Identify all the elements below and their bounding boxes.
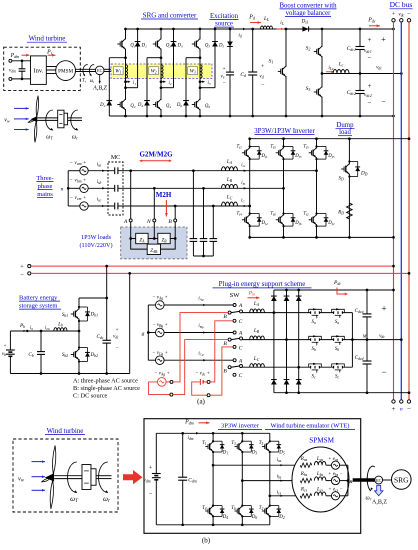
- label iCg: [198, 352, 204, 357]
- inverter box Inv.: [31, 56, 47, 85]
- label Pdc top: [367, 18, 376, 24]
- inductor LC: [222, 202, 238, 206]
- svg-text:Ras: Ras: [300, 456, 308, 462]
- svg-text:ibs: ibs: [277, 475, 282, 480]
- svg-text:Rcs: Rcs: [300, 486, 308, 492]
- rectifier diode top b: [284, 296, 290, 301]
- label ibs: [277, 475, 282, 480]
- svg-text:Excitation: Excitation: [210, 13, 239, 20]
- wire loads A drop: [130, 222, 132, 239]
- label Df5: [327, 154, 334, 159]
- terminal vdm bottom: [9, 77, 12, 80]
- svg-text:D5: D5: [278, 450, 285, 455]
- diode Db2: [78, 346, 90, 362]
- svg-text:ZAB: ZAB: [150, 249, 158, 254]
- wire D1 freewheel chain: [126, 29, 138, 88]
- junction dots phase 2: [146, 28, 175, 118]
- capacitor MC row cm: [115, 203, 118, 210]
- label Cdc1: [347, 46, 356, 52]
- wire plug row A: [243, 312, 309, 314]
- label SW: [230, 292, 241, 299]
- label plug +: [381, 304, 386, 314]
- wire drop node N: [153, 187, 156, 219]
- label Cd: [240, 72, 246, 78]
- gearbox (a): [58, 110, 68, 128]
- label iLb: [45, 326, 50, 331]
- svg-text:iCg: iCg: [198, 352, 204, 357]
- SPMSM circle: [292, 447, 349, 512]
- svg-text:LA: LA: [253, 301, 260, 307]
- svg-text:−: −: [368, 54, 372, 62]
- wire loads B drop: [174, 222, 176, 239]
- rectifier diode bottom b: [284, 380, 290, 385]
- label wr (b): [103, 495, 110, 504]
- svg-text:W1: W1: [115, 70, 121, 75]
- winding W1 label box: [113, 67, 123, 75]
- svg-text:RD: RD: [337, 210, 344, 216]
- svg-text:LC: LC: [253, 356, 260, 362]
- diode Df5: [315, 145, 328, 160]
- plug terminal vAg1 top: [170, 380, 173, 383]
- wire switch branch a: [309, 312, 353, 314]
- junction top rail to bus: [392, 28, 395, 31]
- svg-text:Lb: Lb: [57, 321, 63, 327]
- svg-text:M2H: M2H: [156, 191, 172, 199]
- wire source row Cg right: [164, 359, 233, 361]
- load ZAB: [147, 244, 160, 254]
- junction battery tap -: [128, 272, 131, 275]
- SRG and converter title: [141, 11, 198, 19]
- svg-text:D2: D2: [278, 515, 285, 520]
- label iLc: [328, 65, 334, 71]
- switch SW group: [223, 358, 243, 379]
- wire source row Cg left: [148, 359, 155, 361]
- label T4: [202, 506, 207, 511]
- svg-text:G2M/M2G: G2M/M2G: [139, 150, 173, 158]
- svg-text:Db1: Db1: [90, 312, 99, 318]
- IGBT Tf1: [242, 148, 251, 159]
- label g: [142, 331, 145, 337]
- current arrow ics: [280, 495, 283, 497]
- turbine shaft out (b): [96, 476, 111, 479]
- svg-text:A: A: [238, 358, 243, 364]
- wire drop node B: [174, 205, 177, 219]
- label iB: [241, 181, 245, 186]
- svg-text:+: +: [381, 35, 386, 44]
- label plug -: [381, 367, 386, 377]
- svg-text:C: C: [239, 345, 243, 351]
- label Sb2: [62, 352, 68, 358]
- svg-text:Battery energy: Battery energy: [19, 295, 58, 302]
- label Df2: [327, 221, 334, 226]
- junction phase a leg: [273, 311, 276, 314]
- svg-text:id: id: [238, 33, 241, 39]
- winding W2 coil: [161, 65, 163, 78]
- svg-text:phase: phase: [38, 183, 53, 190]
- svg-text:isb: isb: [97, 180, 102, 185]
- svg-text:Cd: Cd: [240, 72, 246, 78]
- svg-text:Db2: Db2: [90, 352, 99, 358]
- svg-text:1P3W loads: 1P3W loads: [81, 234, 112, 241]
- svg-text:D6: D6: [251, 515, 258, 520]
- AC source vCg: [156, 356, 165, 365]
- diode Df2: [315, 212, 328, 227]
- svg-text:Df2: Df2: [327, 221, 334, 226]
- svg-text:− vbm +: − vbm +: [69, 178, 86, 184]
- boost converter title: [279, 2, 337, 16]
- DC bus title: [390, 0, 413, 9]
- IGBT Q1: [117, 39, 126, 50]
- label vbm: [69, 178, 86, 184]
- diode D2: [106, 101, 112, 106]
- wire source row Bg left: [148, 332, 155, 334]
- svg-text:D1: D1: [222, 450, 229, 455]
- wire converter leg phase 2 main vertical: [160, 29, 162, 116]
- wires Inv to PMSM: [46, 67, 56, 74]
- svg-text:vd: vd: [259, 74, 263, 80]
- label i1: [133, 81, 136, 86]
- svg-text:ωr: ωr: [72, 135, 78, 141]
- wind turbine dashed box (b): [13, 439, 118, 512]
- DC bus line - (red): [408, 22, 410, 400]
- svg-text:EC: EC: [97, 68, 103, 73]
- source ebs: [331, 477, 339, 485]
- label D2 (b): [278, 515, 285, 520]
- terminal A: [123, 219, 132, 225]
- label Q6: [205, 104, 210, 109]
- svg-text:vdc: vdc: [398, 12, 404, 18]
- current tap i2: [160, 80, 166, 83]
- inductor Lb: [54, 328, 67, 331]
- power arrow M2H: [165, 200, 168, 217]
- red wire vAg1 left loop: [149, 382, 170, 395]
- wire (b) inverter leg T3: [241, 433, 243, 525]
- label Tf2: [303, 212, 309, 217]
- diode Df1: [249, 145, 262, 160]
- label wT (a): [46, 135, 53, 141]
- DC bus line n (blue): [400, 22, 402, 400]
- svg-text:Cdc2: Cdc2: [347, 90, 356, 96]
- plug terminal vdc bottom: [207, 394, 210, 397]
- svg-text:−: −: [222, 81, 225, 87]
- IGBT S1: [278, 66, 287, 77]
- wind turbine dashed box: [4, 47, 81, 90]
- svg-text:Tf1: Tf1: [237, 145, 243, 150]
- wire S1 leg: [285, 29, 288, 117]
- diode D6: [183, 101, 189, 106]
- svg-text:Df1: Df1: [261, 154, 268, 159]
- capacitor dc-link (wind turbine box): [19, 69, 26, 71]
- wire rectifier leg b: [285, 289, 288, 394]
- DC source vdc1 (red): [200, 379, 203, 385]
- svg-text:SPMSM: SPMSM: [309, 437, 334, 445]
- diode D6: [241, 505, 253, 518]
- svg-text:Df3: Df3: [294, 154, 301, 159]
- svg-text:Pdm: Pdm: [10, 53, 20, 59]
- svg-text:Sc: Sc: [335, 375, 340, 380]
- wire (b) inverter leg T1: [212, 433, 214, 525]
- svg-text:+: +: [368, 82, 372, 90]
- current arrow ib: [0, 0, 1, 1]
- diode D3: [241, 440, 253, 453]
- three-phase mains title: [36, 175, 53, 198]
- svg-text:Q3: Q3: [166, 44, 171, 49]
- rotation arc shaft (b): [367, 466, 375, 491]
- label vam: [69, 160, 86, 166]
- DC bus line + (red): [393, 22, 395, 400]
- diode Df4: [249, 212, 262, 227]
- label Df4: [261, 221, 268, 226]
- svg-text:LB: LB: [226, 177, 233, 183]
- svg-text:(a): (a): [197, 398, 205, 406]
- IGBT Tf2: [309, 215, 318, 226]
- inductor LA plug: [250, 309, 265, 313]
- svg-text:vdc: vdc: [113, 333, 119, 339]
- label S2: [306, 46, 311, 52]
- DC bus terminals top: [392, 19, 411, 22]
- wire converter leg phase 3 main vertical: [199, 29, 201, 116]
- wire mains row cm to MC: [88, 205, 114, 207]
- switch Sap: [309, 308, 322, 318]
- junction bottom rail to bus: [392, 115, 395, 118]
- svg-text:vdm: vdm: [143, 478, 150, 484]
- label D6 (b): [251, 515, 258, 520]
- winding W3 coil: [200, 65, 202, 78]
- label n mains: [61, 187, 64, 193]
- IGBT Tf3: [276, 148, 285, 159]
- svg-text:T4: T4: [202, 506, 207, 511]
- wire SPMSM neutral: [347, 465, 350, 496]
- svg-text:vw: vw: [4, 118, 10, 124]
- label Cdc battery: [97, 334, 104, 340]
- svg-text:Three-: Three-: [36, 175, 53, 182]
- AC source vbm: [80, 184, 88, 192]
- wire plug cap leg: [366, 289, 369, 394]
- current arrow iL: [277, 28, 285, 30]
- svg-text:load: load: [339, 129, 351, 136]
- capacitor Cdcd: [363, 361, 372, 364]
- wire source bus g: [147, 305, 150, 360]
- diode D2: [269, 505, 281, 518]
- diode Ds1: [302, 26, 308, 31]
- current arrow idm: [196, 432, 199, 435]
- svg-text:LA: LA: [226, 159, 233, 165]
- wire mains row bm after MC: [118, 187, 283, 189]
- resistor RD: [347, 203, 353, 219]
- label Tf1: [237, 145, 243, 150]
- svg-text:source: source: [215, 21, 233, 28]
- svg-text:W3: W3: [190, 70, 196, 75]
- label Db2: [90, 352, 99, 358]
- svg-text:isc: isc: [97, 198, 102, 203]
- junction phase C to leg1: [248, 205, 251, 208]
- label iL: [280, 20, 284, 26]
- red wire to B2: [173, 340, 228, 395]
- svg-text:Pd: Pd: [248, 15, 256, 21]
- red link terminals: [20, 264, 31, 279]
- label LB plug: [253, 328, 260, 334]
- current tap i3: [199, 80, 205, 83]
- svg-text:vb: vb: [2, 351, 6, 357]
- rotation arc wT (a): [46, 110, 54, 131]
- current arrow iB: [244, 187, 247, 189]
- red wire vAg1 right: [166, 381, 170, 383]
- label LB: [226, 177, 233, 183]
- wire (b) inverter leg T5: [269, 433, 271, 525]
- wire switch branch b: [309, 339, 353, 341]
- svg-text:Pdc: Pdc: [333, 280, 341, 286]
- svg-text:ib: ib: [30, 326, 33, 331]
- current arrow iA: [244, 170, 247, 172]
- source ecs: [331, 492, 339, 500]
- wire D6 freewheel chain: [186, 58, 200, 116]
- label ecs: [328, 487, 342, 492]
- wire D4 freewheel chain: [147, 58, 161, 116]
- svg-text:Rbs: Rbs: [300, 471, 308, 477]
- svg-text:+ eas −: + eas −: [328, 457, 343, 462]
- svg-text:Lc: Lc: [338, 62, 344, 68]
- source eas: [331, 461, 339, 469]
- svg-text:mains: mains: [37, 191, 53, 198]
- red wire to C2: [210, 347, 233, 395]
- switch SW group: [223, 303, 243, 325]
- IGBT T3: [235, 441, 244, 452]
- filter capacitor a: [190, 239, 198, 242]
- inductor Las: [314, 461, 326, 465]
- label iAg: [198, 297, 203, 302]
- svg-text:LC: LC: [226, 195, 233, 201]
- SRG circle: [392, 470, 412, 490]
- label (b): [202, 537, 211, 545]
- power arrow Pdc plug: [337, 288, 348, 296]
- label D1: [141, 44, 147, 49]
- svg-text:A,B,Z: A,B,Z: [372, 499, 387, 505]
- junction Lc node: [321, 72, 324, 75]
- label D4: [137, 103, 143, 108]
- wire eas: [326, 464, 348, 466]
- wire mains row bm to MC: [88, 187, 114, 189]
- wire mains neutral bus: [67, 171, 70, 206]
- label Lcs (b): [316, 486, 324, 492]
- resistor Rcs: [300, 494, 312, 498]
- label LA plug: [253, 301, 260, 307]
- svg-text:g: g: [142, 331, 145, 337]
- diode DD: [348, 160, 360, 177]
- svg-text:T5: T5: [259, 441, 264, 446]
- blue arrow A,B,Z: [374, 485, 383, 496]
- winding W2 label box: [149, 67, 159, 75]
- svg-text:+: +: [368, 36, 372, 44]
- wire SRG top rail: [126, 28, 394, 30]
- svg-text:D4: D4: [137, 103, 143, 108]
- 3P3W inverter title (b): [218, 423, 262, 430]
- svg-text:SD: SD: [338, 176, 344, 182]
- junction dots leg Tf5: [315, 137, 318, 238]
- svg-text:Boost converter with: Boost converter with: [279, 2, 337, 9]
- label Q3: [166, 44, 171, 49]
- svg-text:n: n: [349, 479, 352, 485]
- svg-text:S3: S3: [306, 86, 311, 92]
- label Sb1: [62, 312, 68, 318]
- svg-text:ZA: ZA: [139, 238, 145, 243]
- svg-text:Cdc1: Cdc1: [347, 46, 356, 52]
- label M2H: [156, 191, 172, 199]
- junction phase B to leg2: [282, 187, 285, 190]
- current arrow ias: [280, 464, 283, 466]
- wire battery left: [10, 331, 129, 374]
- IGBT T4: [205, 506, 214, 517]
- svg-text:Lcs: Lcs: [316, 486, 324, 492]
- wire rectifier leg a: [273, 290, 275, 393]
- switch SW group: [223, 331, 243, 352]
- resistor Ras: [300, 463, 312, 467]
- capacitor Cd leg: [251, 28, 254, 118]
- current arrow isb: [102, 187, 105, 189]
- svg-text:Ds1: Ds1: [300, 19, 308, 25]
- svg-text:− vdc +: − vdc +: [195, 371, 210, 376]
- IGBT Tf5: [309, 148, 318, 159]
- turbine rotor (a): [28, 96, 38, 143]
- wire inverter bottom rail: [250, 236, 395, 239]
- wire drop node A: [129, 169, 132, 219]
- wire vdm to inverter: [12, 61, 31, 79]
- junction phase A to leg3: [315, 169, 318, 172]
- wire vdm leg: [155, 433, 157, 525]
- svg-text:+: +: [381, 304, 386, 314]
- svg-text:Df4: Df4: [261, 221, 268, 226]
- shaft (b): [353, 478, 375, 481]
- wire (b) row bs: [241, 479, 300, 482]
- rotation arc wr (a): [71, 110, 79, 131]
- wire inverter leg Tf5: [316, 139, 318, 238]
- svg-text:C: C: [239, 319, 243, 325]
- svg-text:iLc: iLc: [328, 65, 334, 71]
- WTE outer box: [144, 419, 361, 534]
- svg-text:B: single-phase AC source: B: single-phase AC source: [73, 385, 140, 392]
- label M: [362, 333, 368, 338]
- label + vd -: [259, 64, 265, 89]
- svg-text:−: −: [407, 405, 411, 413]
- svg-text:+: +: [222, 66, 225, 72]
- svg-text:Q4: Q4: [166, 104, 171, 109]
- label vdc source: [195, 371, 210, 376]
- 1P3W loads shaded box: [121, 227, 187, 259]
- label T1: [202, 441, 207, 446]
- svg-text:+: +: [20, 264, 24, 271]
- diode Df3: [282, 145, 295, 160]
- svg-text:LL: LL: [263, 16, 269, 22]
- IGBT T6: [235, 506, 244, 517]
- wire loads N drop: [153, 222, 155, 239]
- label Df6: [294, 221, 301, 226]
- diode D1: [212, 440, 224, 453]
- dump load title: [336, 122, 355, 136]
- current arrow iLc: [326, 71, 334, 73]
- svg-text:Pdm: Pdm: [184, 419, 194, 425]
- svg-text:Pdc: Pdc: [367, 18, 376, 24]
- power arrow Pdm: [22, 54, 30, 57]
- label vdc1: [364, 48, 372, 54]
- label LL: [263, 16, 269, 22]
- IGBT S3: [314, 87, 323, 98]
- diode D4: [212, 505, 224, 518]
- junction dots (b) leg: [0, 0, 1, 1]
- label ics: [277, 491, 282, 496]
- svg-text:A: three-phase AC source: A: three-phase AC source: [73, 378, 138, 385]
- label Cdcu: [355, 308, 364, 314]
- svg-text:A: A: [123, 219, 128, 225]
- svg-text:vdc: vdc: [379, 333, 385, 339]
